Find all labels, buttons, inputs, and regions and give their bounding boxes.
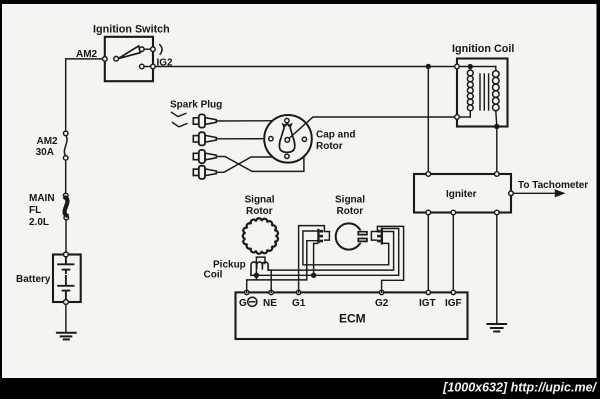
minus-in-circle symbol (248, 297, 257, 306)
svg-text:IG2: IG2 (157, 58, 174, 69)
ground (battery) (57, 333, 76, 340)
spark plug 3 (193, 150, 216, 163)
svg-text:Igniter: Igniter (446, 189, 477, 200)
svg-text:Spark Plug: Spark Plug (170, 100, 222, 111)
svg-text:Signal: Signal (245, 195, 275, 206)
svg-text:Rotor: Rotor (316, 141, 343, 152)
svg-text:Ignition Coil: Ignition Coil (452, 43, 514, 55)
ignition coil box (457, 59, 508, 127)
wire fuse to fusible link (65, 160, 67, 193)
ignition switch box (105, 37, 153, 81)
G1 pickup bracket (325, 232, 330, 241)
G2 pickup bracket (371, 232, 376, 241)
svg-text:2.0L: 2.0L (29, 217, 49, 228)
coil terminal upper (455, 64, 460, 69)
ECM terminal G (245, 290, 249, 294)
svg-text:Ignition Switch: Ignition Switch (93, 24, 170, 36)
bus B2 coil to G2 pickup (268, 232, 394, 271)
rotor flask (279, 122, 294, 152)
fusible link MAIN FL 2.0L (63, 193, 68, 198)
junction B3 (312, 273, 316, 277)
svg-text:Rotor: Rotor (246, 206, 273, 217)
svg-text:AM2: AM2 (76, 49, 98, 60)
wire IGF (452, 215, 454, 293)
wire battery to ground (65, 304, 67, 332)
pickup core ground lead (255, 263, 257, 280)
switch blade (118, 46, 140, 59)
G1 pickup teeth (320, 230, 323, 233)
G1 pickup mid lead to G ground line (247, 241, 318, 293)
svg-text:IGF: IGF (445, 298, 462, 309)
igniter terminal top-left (426, 172, 431, 177)
wire plug4 via cross to cap bottom (216, 157, 284, 172)
svg-text:G2: G2 (375, 298, 389, 309)
svg-text:[1000x632] http://upic.me/: [1000x632] http://upic.me/ (442, 381, 597, 395)
spark plug 2 (193, 132, 216, 145)
switch left terminal (103, 57, 108, 62)
rotor tab slot erase (358, 230, 363, 242)
wire left vertical to fuse (65, 59, 67, 133)
svg-text:G: G (239, 298, 247, 309)
battery box (53, 255, 81, 303)
G1 pickup bottom lead to bus B3 (314, 243, 318, 275)
svg-text:Battery: Battery (16, 274, 51, 285)
wire plug2 to cap left (216, 138, 268, 140)
ECM terminal IGF (451, 290, 455, 294)
igniter terminal bottom ground (495, 210, 500, 215)
G2 outer path bracket to G2 terminal (377, 226, 403, 292)
distributor cap circle (264, 115, 312, 163)
wire NE drop (270, 270, 272, 292)
svg-text:IGT: IGT (419, 298, 436, 309)
igniter terminal bottom IGF (451, 210, 456, 215)
G1 pickup bar (317, 229, 319, 244)
G2 pickup teeth (377, 230, 381, 233)
svg-text:G1: G1 (292, 298, 306, 309)
cap terminal left (269, 137, 273, 141)
svg-text:Cap and: Cap and (316, 130, 355, 141)
primary winding (469, 67, 471, 71)
pickup coil loops (251, 262, 268, 275)
junction IG2/igniter (426, 65, 430, 69)
wire IGT (427, 215, 429, 293)
fuse AM2 30A (63, 131, 68, 136)
ECM terminal G1 (296, 290, 300, 294)
wire plug1 to cap top (216, 120, 284, 122)
signal rotor left (toothed) (243, 218, 278, 254)
battery cells (58, 257, 73, 300)
tach arrow (513, 192, 556, 194)
junction core/B3 (254, 273, 258, 277)
spark plug 4 (193, 166, 216, 179)
cap terminal right (302, 137, 306, 141)
svg-text:Signal: Signal (335, 195, 365, 206)
svg-text:30A: 30A (36, 147, 54, 158)
svg-text:FL: FL (29, 205, 41, 216)
battery terminal bottom (64, 300, 69, 305)
pickup core tab (256, 257, 265, 263)
spark plug 1 (193, 114, 216, 127)
secondary winding (495, 67, 497, 71)
igniter terminal tach (509, 191, 514, 196)
wire plug3 via cross to cap right (216, 142, 304, 172)
start contact hook (160, 45, 162, 55)
battery terminal top (64, 252, 69, 257)
svg-text:Coil: Coil (204, 270, 223, 281)
coil bottom internal wire (459, 116, 470, 118)
wire AM2 feed horizontal (66, 58, 105, 60)
signal rotor right (with tab) (336, 223, 362, 249)
junction primary top (468, 65, 472, 69)
switch pivot (114, 56, 119, 61)
cap terminal top (285, 118, 289, 122)
svg-text:ECM: ECM (339, 312, 366, 326)
G2 pickup bar (381, 228, 383, 245)
coil terminal lower (455, 115, 460, 120)
bus B3 coil to G2 pickup top (251, 229, 399, 276)
G1 pickup top lead to bus B1 (303, 231, 389, 265)
cap terminal bottom (285, 154, 289, 158)
coil top internal wire (459, 66, 496, 68)
svg-text:To Tachometer: To Tachometer (518, 180, 588, 191)
wire link to battery (65, 220, 67, 252)
spark gap marks (172, 112, 186, 116)
svg-text:MAIN: MAIN (29, 193, 55, 204)
igniter box (414, 174, 511, 213)
transformer core (479, 74, 481, 110)
G1 outer path from bracket to G1 (299, 226, 325, 293)
wire coil to igniter (496, 127, 498, 175)
junction coil secondary out (495, 125, 499, 129)
svg-text:NE: NE (263, 298, 277, 309)
rotor tab prongs (358, 232, 367, 235)
ECM terminal IGT (426, 290, 430, 294)
wire IG2 to ignition coil (155, 66, 455, 68)
ground (igniter) (488, 324, 507, 332)
switch upper contact (140, 47, 145, 52)
svg-text:AM2: AM2 (37, 136, 59, 147)
wire junction down to igniter (427, 67, 429, 175)
ECM terminal NE (269, 290, 273, 294)
ECM box (236, 292, 468, 339)
svg-text:Rotor: Rotor (337, 206, 364, 217)
rotor center contact (285, 138, 290, 143)
ECM terminal G2 (379, 290, 383, 294)
switch IG2 contact (140, 64, 145, 69)
coil HT wire to rotor (289, 117, 454, 138)
wire igniter to ground (496, 215, 498, 324)
igniter terminal bottom IGT (426, 210, 431, 215)
igniter terminal top-right (495, 172, 500, 177)
